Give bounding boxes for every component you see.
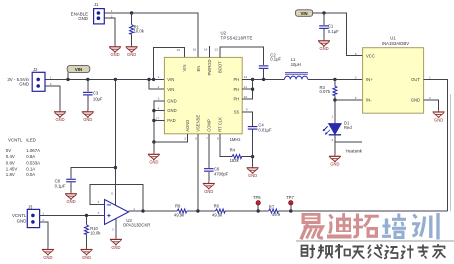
svg-text:3: 3	[98, 211, 100, 215]
svg-text:0V: 0V	[6, 148, 11, 153]
svg-text:OUT: OUT	[411, 77, 420, 82]
svg-text:7: 7	[206, 136, 208, 140]
svg-text:49.9k: 49.9k	[212, 213, 223, 218]
label C2 value	[270, 53, 281, 62]
svg-text:8: 8	[217, 136, 219, 140]
svg-text:1: 1	[158, 75, 160, 79]
ground below C1	[318, 39, 330, 51]
svg-text:0.1μF: 0.1μF	[270, 57, 281, 62]
wire AGND stub	[154, 134, 187, 142]
svg-text:0.01μF: 0.01μF	[258, 127, 272, 132]
svg-text:17: 17	[156, 116, 160, 120]
watermark slogan zhuan	[418, 245, 429, 259]
svg-text:GND: GND	[78, 16, 88, 21]
svg-text:PH: PH	[233, 87, 239, 92]
svg-text:2: 2	[42, 218, 44, 222]
op-amp U2 main IC body	[164, 57, 242, 133]
resistor R3	[333, 79, 337, 100]
node C2 junction	[262, 78, 265, 81]
svg-text:PAD: PAD	[167, 118, 175, 123]
svg-text:14: 14	[204, 47, 208, 51]
svg-text:5: 5	[111, 192, 113, 196]
label VCNTL GND	[12, 213, 27, 223]
wire down to ground from AGND node	[153, 142, 155, 153]
svg-text:2: 2	[331, 138, 333, 142]
wire op-amp V- to ground	[115, 218, 117, 237]
svg-text:GND: GND	[167, 98, 176, 103]
capacitor C6 on COMP	[204, 134, 214, 182]
node VIN top pin junction	[152, 78, 155, 81]
label ENABLE GND	[71, 12, 88, 21]
resistor R4	[232, 155, 253, 159]
svg-text:VCC: VCC	[366, 53, 375, 58]
watermark char di	[327, 213, 352, 239]
svg-text:PH: PH	[233, 77, 239, 82]
node GND4 junction	[152, 109, 155, 112]
node C3 junction	[86, 78, 89, 81]
svg-text:VIN: VIN	[167, 87, 174, 92]
table row 0.8V	[6, 160, 40, 165]
ground below J1	[109, 45, 121, 57]
svg-text:1MHz: 1MHz	[230, 137, 241, 142]
node VIN pin2 junction	[147, 78, 150, 81]
svg-text:1: 1	[111, 9, 113, 13]
svg-text:0.8A: 0.8A	[26, 154, 35, 159]
svg-text:2: 2	[158, 85, 160, 89]
net flag VIN right	[296, 10, 313, 16]
svg-text:13: 13	[214, 47, 218, 51]
watermark char xun	[412, 213, 438, 240]
svg-text:1: 1	[42, 211, 44, 215]
connector J2	[32, 72, 45, 91]
wire BOOT to C2	[220, 47, 263, 65]
watermark slogan ji	[401, 245, 414, 259]
sheet border right edge	[450, 94, 452, 211]
svg-text:1.8V: 1.8V	[6, 172, 15, 177]
svg-text:4: 4	[355, 96, 357, 100]
svg-text:3: 3	[355, 75, 357, 79]
label R7 value	[269, 205, 281, 218]
svg-text:GND: GND	[19, 82, 29, 87]
svg-text:9: 9	[246, 108, 248, 112]
LED D1	[323, 100, 342, 155]
watermark underline	[296, 240, 454, 242]
watermark char yi	[301, 213, 323, 239]
svg-text:VIN: VIN	[182, 65, 187, 72]
svg-text:2: 2	[50, 82, 52, 86]
svg-text:EN: EN	[196, 66, 201, 72]
watermark slogan she	[302, 245, 316, 258]
svg-text:0.075: 0.075	[320, 89, 331, 94]
inductor L1	[285, 73, 308, 80]
wire VIN down to op-amp supply	[114, 79, 116, 205]
label U1 INA193AIDBV	[382, 36, 409, 46]
svg-text:10μH: 10μH	[291, 62, 301, 67]
connector J3	[27, 209, 39, 227]
svg-text:AGND: AGND	[185, 120, 190, 132]
svg-text:BOOT: BOOT	[218, 61, 223, 73]
svg-text:Red: Red	[344, 125, 352, 130]
capacitor C4	[248, 126, 258, 166]
svg-text:GND: GND	[17, 219, 27, 224]
node feedback junction	[141, 209, 144, 212]
svg-text:182k: 182k	[230, 158, 240, 163]
ground below C4	[247, 166, 259, 178]
ground below C3	[82, 110, 94, 122]
current sense amp U1 body	[363, 48, 424, 114]
svg-text:J2: J2	[33, 67, 38, 72]
wire J1 pin2 to ground	[104, 18, 115, 45]
svg-text:VCNTL: VCNTL	[8, 137, 23, 142]
svg-text:TP7: TP7	[286, 195, 294, 200]
svg-text:TPS54218RTE: TPS54218RTE	[221, 36, 253, 41]
svg-text:R7: R7	[269, 205, 275, 210]
ground below J3	[42, 248, 54, 260]
svg-text:49.9: 49.9	[272, 212, 281, 217]
table VCNTL ILED header	[8, 137, 36, 142]
svg-text:PH: PH	[233, 97, 239, 102]
resistor R1	[130, 13, 134, 45]
node R3 bottom junction	[333, 98, 336, 101]
label U2 TPS54218RTE	[221, 31, 253, 41]
svg-text:4: 4	[158, 106, 160, 110]
svg-text:10.0k: 10.0k	[134, 29, 145, 34]
svg-text:1: 1	[429, 75, 431, 79]
wire op-amp output rail	[129, 210, 448, 212]
capacitor C3	[83, 79, 93, 110]
svg-text:SS: SS	[234, 110, 240, 115]
svg-text:INA193AIDBV: INA193AIDBV	[382, 41, 409, 46]
svg-text:0.1μF: 0.1μF	[55, 184, 66, 189]
svg-text:16: 16	[193, 48, 197, 52]
node VIN flag junction	[66, 78, 69, 81]
wire PH to L1	[253, 78, 285, 80]
ground below U2 GND pins	[148, 152, 160, 164]
svg-text:10.0k: 10.0k	[90, 231, 101, 236]
svg-text:R4: R4	[230, 147, 236, 152]
node PAD junction	[152, 119, 155, 122]
label R9 value	[174, 204, 185, 218]
svg-text:VIN: VIN	[167, 77, 174, 82]
resistor R9	[177, 209, 187, 213]
svg-text:ILED: ILED	[26, 137, 36, 142]
label R3 value	[320, 85, 331, 94]
svg-text:5: 5	[184, 136, 186, 140]
ground below R1	[126, 45, 138, 57]
node C1 junction	[322, 11, 325, 14]
svg-text:0.4V: 0.4V	[6, 154, 15, 159]
capacitor C2	[259, 65, 269, 79]
svg-text:2: 2	[429, 96, 431, 100]
watermark char pei	[382, 214, 406, 240]
svg-text:J1: J1	[94, 2, 99, 7]
table row 0.4V	[6, 154, 36, 159]
svg-text:Heatsink: Heatsink	[346, 149, 363, 154]
ground below U1	[433, 110, 445, 122]
node C8 junction	[114, 166, 117, 169]
ground below C6	[203, 182, 215, 194]
node R3 top junction	[333, 78, 336, 81]
label 3V - 5.5Vin GND	[7, 77, 29, 87]
svg-text:49.9k: 49.9k	[174, 213, 185, 218]
node TP6 junction	[257, 209, 260, 212]
watermark char tuo	[353, 214, 379, 238]
wire SS to C4	[242, 112, 252, 126]
svg-text:GND: GND	[411, 98, 420, 103]
wire R3 to U1 IN-	[335, 99, 363, 101]
svg-text:C1: C1	[328, 24, 334, 29]
label R6 value	[212, 204, 223, 218]
wire EN net J1 pin1 to R1 to EN pin	[104, 13, 198, 57]
wire VSENSE to feedback node	[197, 134, 199, 211]
wire U1 GND to ground	[424, 100, 439, 110]
svg-text:RT CLK: RT CLK	[217, 117, 222, 132]
label U3 OPA313DCKR	[123, 218, 150, 228]
svg-text:5: 5	[355, 52, 357, 56]
svg-text:1: 1	[331, 115, 333, 119]
svg-text:VIN: VIN	[301, 11, 308, 16]
node VSENSE junction	[196, 209, 199, 212]
svg-text:VSENSE: VSENSE	[195, 115, 200, 132]
node R10 junction	[85, 214, 88, 217]
svg-text:R9: R9	[175, 204, 181, 209]
watermark slogan she2	[384, 246, 398, 259]
table row 1.45V	[6, 166, 36, 171]
op-amp U3	[105, 200, 129, 225]
wire op-amp feedback loop	[90, 185, 143, 211]
resistor R6	[215, 209, 225, 213]
label R1 value	[134, 24, 145, 33]
svg-text:10μF: 10μF	[93, 96, 103, 101]
wire J3 pin2 to ground	[40, 222, 48, 248]
svg-text:VIN: VIN	[75, 67, 82, 72]
ground below C8	[65, 192, 77, 204]
svg-text:4: 4	[98, 200, 100, 204]
svg-text:2: 2	[112, 227, 114, 231]
svg-text:12: 12	[244, 75, 248, 79]
wire heatsink stub	[335, 141, 362, 143]
svg-text:6: 6	[195, 136, 197, 140]
node EN junction at R1	[130, 11, 133, 14]
svg-text:C3: C3	[93, 91, 99, 96]
svg-text:VCNTL: VCNTL	[12, 213, 27, 218]
wire J3 pin1 to op-amp plus input	[40, 214, 105, 216]
watermark slogan pin	[318, 245, 333, 259]
wire VIN to U2 pin2	[149, 79, 164, 89]
wire PWRGD stub	[209, 46, 211, 57]
ground below R10	[81, 248, 93, 260]
svg-text:IN-: IN-	[366, 98, 372, 103]
svg-text:10: 10	[244, 95, 248, 99]
table row 1.8V	[6, 172, 36, 177]
svg-text:R6: R6	[214, 204, 220, 209]
svg-text:1.45V: 1.45V	[6, 166, 18, 171]
ground below J2	[54, 110, 66, 122]
node TP7 junction	[289, 209, 292, 212]
wire J2 pin2 to ground	[45, 86, 60, 110]
node PH1 junction	[251, 78, 254, 81]
label L1 value	[291, 57, 301, 67]
svg-text:4700pF: 4700pF	[214, 171, 229, 176]
svg-text:PWRGD: PWRGD	[207, 59, 212, 75]
svg-text:1.067A: 1.067A	[26, 148, 40, 153]
watermark slogan xian	[368, 245, 383, 259]
test point TP7	[286, 195, 294, 211]
label C6 value	[214, 167, 229, 177]
label D1 Red	[344, 120, 352, 129]
svg-text:TP6: TP6	[253, 195, 261, 200]
svg-text:1: 1	[133, 207, 135, 211]
svg-text:0.533A: 0.533A	[26, 160, 40, 165]
svg-text:IN+: IN+	[366, 77, 373, 82]
svg-text:0.1A: 0.1A	[26, 166, 35, 171]
ground below D1	[329, 154, 341, 166]
node VIN to opamp supply junction	[114, 78, 117, 81]
watermark slogan tian	[352, 247, 365, 259]
label C3 value	[93, 91, 103, 102]
label C8 value	[55, 178, 66, 188]
net flag VIN left	[67, 66, 90, 80]
svg-text:0.8V: 0.8V	[6, 160, 15, 165]
wire VIN rail J2 to U2	[45, 78, 164, 80]
wire U1 OUT down to bottom rail	[424, 79, 448, 211]
capacitor C8	[66, 168, 115, 192]
wire RT CLK to R4	[220, 134, 232, 157]
svg-text:1: 1	[50, 75, 52, 79]
ground below op-amp	[110, 238, 122, 250]
wire VIN to U2 top VIN pin	[154, 48, 185, 80]
node AGND junction	[152, 140, 155, 143]
wire VIN to U1 VCC	[313, 13, 363, 56]
watermark slogan he	[335, 244, 350, 259]
svg-text:0.1μF: 0.1μF	[328, 29, 339, 34]
svg-text:3: 3	[158, 97, 160, 101]
svg-text:15: 15	[177, 48, 181, 52]
wire U2 GND pins to ground	[154, 101, 165, 142]
label R10 value	[90, 226, 101, 236]
test point TP6	[253, 195, 261, 211]
node R4 C4 junction	[251, 155, 254, 158]
svg-text:GND: GND	[167, 108, 176, 113]
svg-text:COMP: COMP	[206, 119, 211, 132]
connector J1	[94, 9, 105, 24]
svg-text:11: 11	[244, 85, 247, 89]
node PH2 junction	[251, 88, 254, 91]
capacitor C1	[319, 13, 329, 39]
svg-text:0.0A: 0.0A	[26, 172, 35, 177]
wire L1 to U1 IN+	[308, 78, 363, 80]
watermark slogan jia	[433, 244, 446, 259]
svg-text:J3: J3	[28, 204, 33, 209]
table row 0V	[6, 148, 40, 153]
label C1 value	[328, 24, 339, 34]
wire PH pins bus	[242, 79, 252, 99]
label R4 value	[230, 147, 240, 163]
svg-text:OPA313DCKR: OPA313DCKR	[123, 222, 150, 227]
resistor R7	[269, 209, 279, 213]
resistor R10	[85, 215, 89, 247]
label C4 value	[258, 123, 272, 133]
